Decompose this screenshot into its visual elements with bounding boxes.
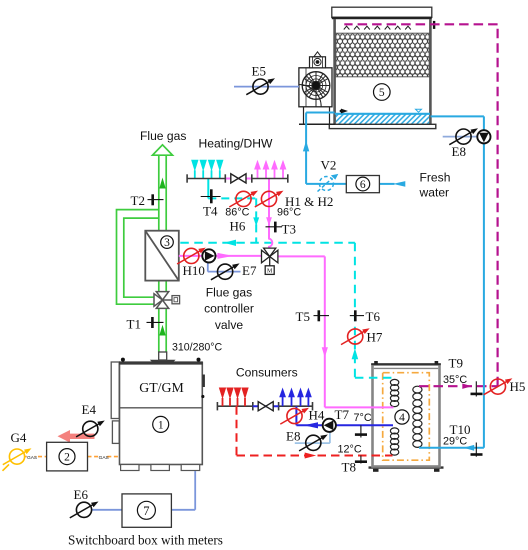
svg-text:29°C: 29°C <box>443 435 467 447</box>
svg-text:T6: T6 <box>366 309 381 324</box>
svg-text:1: 1 <box>158 419 164 431</box>
svg-text:E8: E8 <box>452 144 466 159</box>
svg-text:Switchboard box with meters: Switchboard box with meters <box>68 533 223 548</box>
svg-text:H5: H5 <box>510 379 526 394</box>
svg-text:T5: T5 <box>296 309 310 324</box>
svg-text:35°C: 35°C <box>443 374 467 386</box>
svg-text:Consumers: Consumers <box>236 365 298 379</box>
svg-text:E6: E6 <box>74 487 89 502</box>
svg-text:Flue gas: Flue gas <box>140 129 186 143</box>
svg-text:E5: E5 <box>252 64 266 79</box>
svg-text:86°C: 86°C <box>225 207 249 219</box>
svg-text:H6: H6 <box>230 219 246 234</box>
svg-text:E8: E8 <box>286 429 300 444</box>
svg-text:96°C: 96°C <box>277 207 301 219</box>
svg-text:4: 4 <box>399 412 405 424</box>
svg-text:7: 7 <box>143 504 149 518</box>
svg-text:T9: T9 <box>449 356 463 371</box>
svg-text:GAS: GAS <box>27 455 37 461</box>
svg-text:H7: H7 <box>367 330 383 345</box>
svg-text:E7: E7 <box>242 263 257 278</box>
svg-text:valve: valve <box>215 318 244 332</box>
svg-text:controller: controller <box>204 302 254 316</box>
svg-text:G4: G4 <box>11 430 27 445</box>
svg-text:3: 3 <box>164 237 170 249</box>
svg-text:Heating/DHW: Heating/DHW <box>199 136 274 150</box>
svg-text:T8: T8 <box>342 460 356 475</box>
svg-text:T1: T1 <box>127 317 141 332</box>
svg-text:E4: E4 <box>82 402 97 417</box>
svg-text:6: 6 <box>360 179 366 191</box>
svg-text:water: water <box>419 186 450 200</box>
svg-text:V2: V2 <box>321 158 337 173</box>
svg-text:T4: T4 <box>203 204 218 219</box>
svg-text:T2: T2 <box>131 193 145 208</box>
svg-text:T7: T7 <box>335 407 350 422</box>
svg-text:5: 5 <box>379 87 385 99</box>
svg-text:H10: H10 <box>183 263 205 278</box>
svg-text:GAS: GAS <box>99 455 109 461</box>
svg-text:2: 2 <box>64 452 70 464</box>
svg-text:T3: T3 <box>282 222 296 237</box>
svg-text:12°C: 12°C <box>338 444 362 456</box>
svg-text:H4: H4 <box>309 408 325 423</box>
svg-text:M: M <box>267 269 273 275</box>
svg-text:Fresh: Fresh <box>420 171 451 185</box>
svg-text:310/280°C: 310/280°C <box>172 342 223 354</box>
svg-text:7°C: 7°C <box>354 412 372 424</box>
svg-text:Flue gas: Flue gas <box>206 286 252 300</box>
svg-text:GT/GM: GT/GM <box>139 380 183 395</box>
